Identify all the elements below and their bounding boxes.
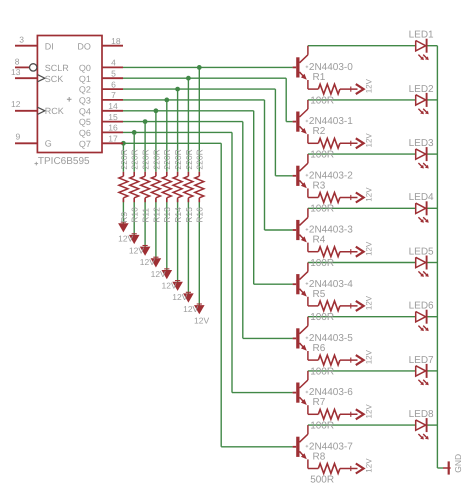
svg-text:12V: 12V xyxy=(364,133,373,148)
svg-text:DO: DO xyxy=(77,42,91,52)
svg-text:12V: 12V xyxy=(118,234,133,244)
svg-text:6: 6 xyxy=(111,79,116,89)
svg-text:8: 8 xyxy=(15,57,20,67)
svg-text:Q6: Q6 xyxy=(79,128,91,138)
svg-text:12V: 12V xyxy=(129,245,144,255)
svg-text:100R: 100R xyxy=(310,204,334,215)
svg-text:220R: 220R xyxy=(141,149,151,169)
svg-text:7: 7 xyxy=(111,90,116,100)
svg-text:R10: R10 xyxy=(130,207,140,223)
svg-text:R16: R16 xyxy=(195,207,205,223)
svg-text:Q2: Q2 xyxy=(79,85,91,95)
svg-text:100R: 100R xyxy=(310,366,334,377)
svg-text:R4: R4 xyxy=(313,235,326,246)
svg-text:220R: 220R xyxy=(130,149,140,169)
svg-text:12V: 12V xyxy=(194,316,209,326)
svg-text:LED4: LED4 xyxy=(409,192,434,203)
svg-text:12V: 12V xyxy=(364,295,373,310)
svg-text:R11: R11 xyxy=(141,208,151,223)
svg-text:SCLR: SCLR xyxy=(45,63,70,73)
svg-text:LED6: LED6 xyxy=(409,301,434,312)
svg-text:TPIC6B595: TPIC6B595 xyxy=(38,156,90,167)
svg-text:18: 18 xyxy=(111,36,121,46)
svg-text:220R: 220R xyxy=(119,149,129,169)
svg-text:Q5: Q5 xyxy=(79,117,91,127)
svg-text:12V: 12V xyxy=(162,281,177,291)
svg-text:DI: DI xyxy=(45,42,54,52)
svg-text:R3: R3 xyxy=(313,180,326,191)
svg-text:R2: R2 xyxy=(313,126,326,137)
svg-text:4: 4 xyxy=(111,58,116,68)
svg-text:12: 12 xyxy=(11,99,21,109)
svg-text:R6: R6 xyxy=(313,343,326,354)
svg-text:R1: R1 xyxy=(313,72,326,83)
svg-text:R7: R7 xyxy=(313,397,326,408)
svg-text:Q1: Q1 xyxy=(79,74,91,84)
svg-text:R14: R14 xyxy=(173,207,183,223)
svg-text:100R: 100R xyxy=(310,258,334,269)
svg-text:220R: 220R xyxy=(151,149,161,169)
svg-text:Q7: Q7 xyxy=(79,139,91,149)
svg-text:12V: 12V xyxy=(183,304,198,314)
svg-text:13: 13 xyxy=(11,67,21,77)
svg-text:100R: 100R xyxy=(310,150,334,161)
svg-text:100R: 100R xyxy=(310,95,334,106)
svg-text:LED1: LED1 xyxy=(409,30,434,41)
svg-text:R15: R15 xyxy=(184,207,194,223)
svg-text:220R: 220R xyxy=(162,149,172,169)
svg-text:12V: 12V xyxy=(364,404,373,419)
svg-text:R8: R8 xyxy=(313,451,326,462)
svg-text:R12: R12 xyxy=(151,207,161,223)
svg-text:LED8: LED8 xyxy=(409,409,434,420)
svg-text:Q0: Q0 xyxy=(79,63,91,73)
svg-text:12V: 12V xyxy=(364,349,373,364)
svg-text:12V: 12V xyxy=(140,257,155,267)
svg-text:LED3: LED3 xyxy=(409,138,434,149)
svg-text:12V: 12V xyxy=(364,241,373,256)
svg-text:12V: 12V xyxy=(364,458,373,473)
svg-text:Q4: Q4 xyxy=(79,106,91,116)
svg-text:LED7: LED7 xyxy=(409,355,434,366)
svg-text:500R: 500R xyxy=(310,475,334,486)
svg-text:14: 14 xyxy=(108,101,118,111)
svg-text:LED2: LED2 xyxy=(409,84,434,95)
svg-text:Q3: Q3 xyxy=(79,96,91,106)
svg-text:GND: GND xyxy=(453,454,463,473)
svg-text:RCK: RCK xyxy=(45,106,64,116)
svg-text:3: 3 xyxy=(19,35,24,45)
svg-text:220R: 220R xyxy=(173,149,183,169)
svg-text:100R: 100R xyxy=(310,312,334,323)
svg-text:100R: 100R xyxy=(310,421,334,432)
svg-text:SCK: SCK xyxy=(45,74,64,84)
svg-text:12V: 12V xyxy=(172,292,187,302)
svg-text:R9: R9 xyxy=(119,212,129,223)
svg-text:LED5: LED5 xyxy=(409,246,434,257)
svg-text:12V: 12V xyxy=(364,187,373,202)
svg-text:9: 9 xyxy=(15,131,20,141)
svg-text:220R: 220R xyxy=(184,149,194,169)
svg-text:R13: R13 xyxy=(162,207,172,223)
svg-text:17: 17 xyxy=(108,134,118,144)
svg-text:12V: 12V xyxy=(151,269,166,279)
svg-text:220R: 220R xyxy=(195,149,205,169)
svg-text:G: G xyxy=(45,138,52,148)
svg-text:15: 15 xyxy=(108,112,118,122)
svg-text:16: 16 xyxy=(108,123,118,133)
svg-text:R5: R5 xyxy=(313,289,326,300)
svg-text:12V: 12V xyxy=(364,78,373,93)
svg-text:5: 5 xyxy=(111,68,116,78)
